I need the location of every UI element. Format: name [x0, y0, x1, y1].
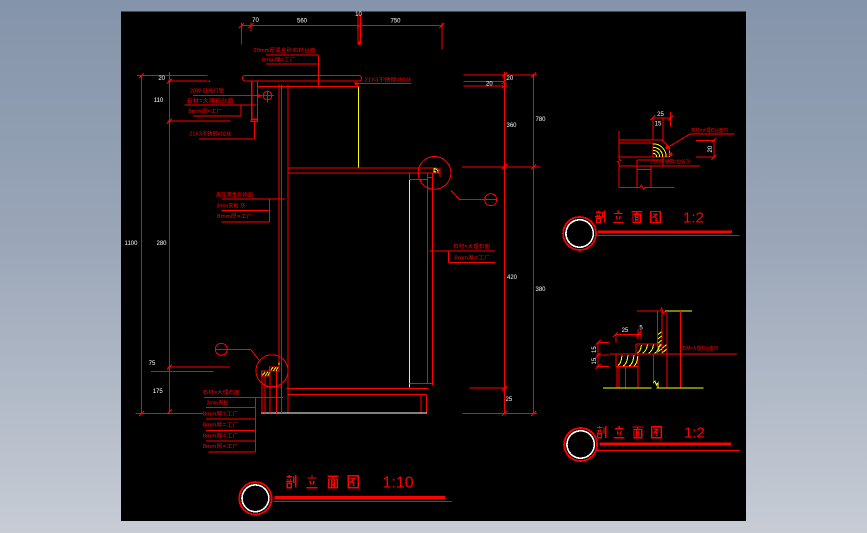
countertop slab — [243, 75, 362, 81]
label stack right connector — [255, 397, 257, 451]
svg-text:1:2: 1:2 — [684, 425, 705, 442]
svg-text:750: 750 — [390, 18, 401, 24]
support post under slab — [251, 82, 258, 122]
left counter top lines — [137, 76, 207, 82]
long mid line BR — [610, 353, 737, 355]
mid shelf double line — [288, 168, 440, 173]
svg-text:10: 10 — [355, 12, 362, 18]
svg-text:20: 20 — [708, 145, 714, 152]
bottom base line left — [136, 412, 203, 414]
balloon leader mid right — [451, 190, 485, 200]
svg-text:15: 15 — [655, 121, 662, 127]
top line red part — [637, 310, 660, 312]
yellow curl in detail circle — [434, 169, 438, 173]
svg-text:21X3不锈钢=拉丝: 21X3不锈钢=拉丝 — [189, 129, 231, 137]
right dim values — [486, 76, 546, 403]
svg-text:21X3不锈钢=拉丝70: 21X3不锈钢=拉丝70 — [651, 157, 691, 165]
balloon circle mid right — [485, 194, 497, 206]
bottom of inner panel — [409, 383, 433, 385]
plinth columns BR — [617, 367, 638, 388]
svg-text:15: 15 — [592, 357, 598, 364]
svg-text:8mm厚=工厂: 8mm厚=工厂 — [262, 57, 296, 64]
svg-text:8mm厚=工厂: 8mm厚=工厂 — [454, 254, 490, 261]
svg-text:175: 175 — [153, 389, 164, 395]
svg-text:20: 20 — [507, 76, 514, 82]
plinth columns — [261, 371, 263, 413]
svg-text:石材=大理石面: 石材=大理石面 — [453, 242, 490, 250]
right dim ticks — [502, 72, 536, 416]
moulding step box 2 — [269, 367, 279, 371]
block1 BR — [616, 354, 638, 367]
detail circle shelf edge — [418, 157, 451, 190]
svg-text:780: 780 — [536, 117, 547, 123]
left dim line inner — [168, 72, 170, 412]
svg-text:3mm夹板 灰: 3mm夹板 灰 — [217, 201, 246, 209]
svg-text:石材=大理石面: 石材=大理石面 — [203, 388, 240, 396]
balloon big bottom — [239, 482, 271, 514]
left dim values — [125, 76, 168, 395]
floor line white — [261, 412, 427, 414]
top dimension line — [239, 15, 445, 50]
svg-text:70: 70 — [252, 18, 259, 24]
title text bottom — [286, 475, 296, 488]
svg-text:15: 15 — [592, 346, 598, 353]
svg-text:石材=大理石台面70: 石材=大理石台面70 — [691, 126, 728, 134]
svg-text:石材=大理石台面: 石材=大理石台面 — [187, 97, 234, 105]
svg-text:20: 20 — [158, 76, 165, 82]
long line under label — [619, 165, 700, 167]
right verticals BR — [667, 311, 681, 387]
right dim 20 — [696, 138, 716, 160]
svg-text:110: 110 — [154, 98, 164, 104]
svg-text:8mm厚=工厂: 8mm厚=工厂 — [203, 432, 239, 439]
svg-text:石材=大理石台面70: 石材=大理石台面70 — [682, 344, 718, 352]
svg-text:1:10: 1:10 — [383, 475, 414, 492]
svg-text:1:2: 1:2 — [683, 209, 704, 226]
lamp symbol crosshair — [263, 90, 274, 102]
leader arrow 21X3 — [354, 82, 360, 86]
left dim ticks — [139, 73, 172, 416]
detail circle plinth — [256, 355, 288, 387]
plinth top lines bottom right — [287, 388, 429, 390]
svg-text:280: 280 — [156, 241, 167, 247]
mid column BR with break — [652, 354, 654, 383]
svg-text:360: 360 — [507, 123, 518, 129]
label 8mm board box — [266, 55, 318, 86]
wall pair BR — [658, 311, 662, 354]
svg-text:75: 75 — [149, 361, 156, 367]
right dim verticals — [504, 72, 533, 413]
left tick line y121 — [168, 120, 231, 122]
columns tie line — [266, 386, 281, 388]
svg-text:20W 日光灯管: 20W 日光灯管 — [190, 86, 224, 94]
red dot trim end — [668, 152, 672, 156]
svg-text:25: 25 — [657, 112, 664, 118]
shelf end step — [437, 168, 440, 177]
balloon leader plinth — [227, 349, 259, 360]
svg-text:8mm厚=工厂: 8mm厚=工厂 — [189, 108, 223, 115]
apron line under slab — [257, 85, 359, 87]
moulding step box 1 — [262, 371, 270, 376]
slab top lines — [619, 140, 670, 157]
left lower tick lines — [151, 367, 230, 371]
under structure TR — [637, 156, 663, 187]
svg-text:560: 560 — [297, 18, 308, 24]
svg-text:8mm厚=工厂: 8mm厚=工厂 — [203, 443, 239, 450]
top line yellow part — [665, 310, 692, 312]
floor line yellow BR — [603, 387, 703, 389]
svg-text:21X3不锈钢=拉丝: 21X3不锈钢=拉丝 — [365, 75, 412, 83]
front panel verticals — [278, 85, 280, 367]
top dimension values 70 560 10 750 — [252, 12, 401, 24]
left wall vertical TR — [618, 131, 621, 187]
lamp leader — [193, 95, 261, 97]
svg-text:高压黑金砂饰面: 高压黑金砂饰面 — [216, 191, 253, 199]
yellow hatch in wall — [658, 332, 667, 353]
inner panel pair right — [426, 174, 428, 384]
yellow edge band upper — [357, 87, 359, 167]
svg-text:1100: 1100 — [125, 241, 139, 247]
chamfer edge — [662, 140, 670, 157]
svg-text:25: 25 — [622, 328, 629, 334]
svg-text:380: 380 — [536, 287, 547, 293]
black drawing canvas — [121, 12, 746, 522]
bottom line TR — [619, 185, 674, 189]
top line break — [660, 308, 665, 314]
yellow edge line vertical — [408, 180, 410, 388]
svg-text:25: 25 — [506, 397, 513, 403]
left dim line outer — [140, 76, 142, 414]
title underline thick — [275, 496, 445, 499]
dim 25 5 BR — [622, 325, 644, 334]
svg-text:8mm厚=工厂: 8mm厚=工厂 — [217, 213, 253, 220]
balloon circle plinth — [215, 343, 227, 355]
svg-text:8mm厚=工厂: 8mm厚=工厂 — [203, 411, 239, 418]
shelf underside small steps — [410, 174, 433, 184]
svg-text:3mm夹板: 3mm夹板 — [207, 399, 230, 407]
svg-text:8mm厚=工厂: 8mm厚=工厂 — [203, 421, 239, 428]
svg-text:420: 420 — [507, 275, 518, 281]
yellow grain arcs — [653, 144, 666, 157]
block2 BR — [636, 344, 663, 354]
title underline thin — [273, 500, 452, 502]
leader to stone label — [666, 146, 669, 149]
left dim BR — [596, 340, 610, 369]
svg-text:20mm厚黑金砂石材台面: 20mm厚黑金砂石材台面 — [254, 46, 316, 54]
right dim extension lines — [462, 75, 541, 414]
svg-text:20: 20 — [486, 82, 493, 88]
